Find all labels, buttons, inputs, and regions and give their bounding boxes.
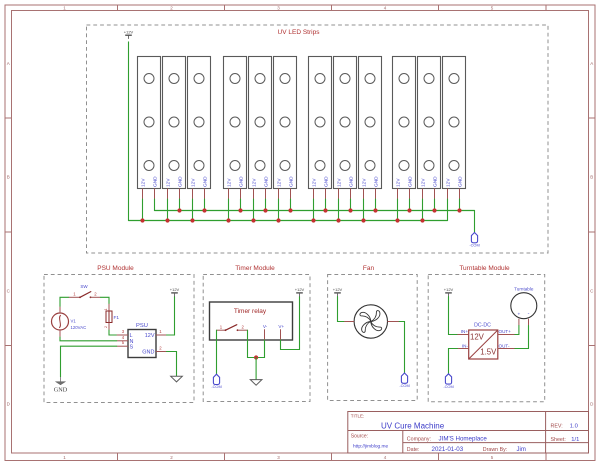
svg-text:120VAC: 120VAC bbox=[71, 325, 87, 330]
svg-text:Timer Module: Timer Module bbox=[235, 265, 275, 272]
fuse F1 bbox=[104, 304, 119, 330]
svg-text:2: 2 bbox=[104, 326, 108, 328]
LED strip module 10 (pins 12V, GND) bbox=[393, 57, 416, 200]
junction 12V bus / strip 2 bbox=[165, 218, 169, 222]
timer relay module K1 bbox=[210, 302, 293, 340]
wire V1 top to switch SW pin 1 bbox=[60, 297, 69, 306]
svg-text:12V: 12V bbox=[362, 178, 368, 187]
power symbol +12V (LED supply) bbox=[124, 29, 134, 39]
svg-text:1/1: 1/1 bbox=[571, 437, 579, 443]
power symbol -COM (timer) bbox=[211, 374, 221, 389]
wire GND bus drop to -COM bbox=[474, 211, 476, 233]
wire strip 6 GND pin to GND bus bbox=[290, 199, 292, 211]
svg-text:+: + bbox=[517, 312, 520, 317]
svg-text:1.5V: 1.5V bbox=[480, 347, 497, 356]
junction 12V bus / strip 10 bbox=[395, 218, 399, 222]
wire strip 11 12V pin to 12V bus bbox=[422, 199, 424, 221]
junction 12V bus / strip 8 bbox=[336, 218, 340, 222]
svg-text:12V: 12V bbox=[421, 178, 427, 187]
svg-text:12V: 12V bbox=[252, 178, 258, 187]
svg-text:12V: 12V bbox=[166, 178, 172, 187]
svg-text:REV:: REV: bbox=[551, 423, 563, 429]
svg-text:Turntable Module: Turntable Module bbox=[459, 265, 510, 272]
wire strip 11 GND pin to GND bus bbox=[434, 199, 436, 211]
module box: PSU Module bbox=[44, 275, 194, 403]
svg-text:12V: 12V bbox=[277, 178, 283, 187]
sheet title: UV LED Strips bbox=[278, 29, 321, 36]
svg-text:SW: SW bbox=[80, 284, 88, 289]
svg-text:12V: 12V bbox=[145, 333, 155, 339]
svg-text:+12V: +12V bbox=[295, 287, 305, 292]
LED strip module 1 (pins 12V, GND) bbox=[138, 57, 161, 200]
fan M1 bbox=[344, 305, 399, 338]
wire strip 10 GND pin to GND bus bbox=[409, 199, 411, 211]
junction relay pin2 / V- / ground bbox=[254, 355, 258, 359]
svg-text:Drawn By:: Drawn By: bbox=[483, 447, 507, 453]
junction 12V bus / strip 9 bbox=[361, 218, 365, 222]
svg-text:Sheet:: Sheet: bbox=[551, 437, 566, 443]
svg-text:Fan: Fan bbox=[363, 265, 375, 272]
PSU converter module U1 bbox=[117, 323, 167, 358]
wire strip 3 GND pin to GND bus bbox=[204, 199, 206, 211]
module box: Timer Module bbox=[203, 275, 310, 402]
svg-text:GND: GND bbox=[142, 350, 154, 356]
wire PSU GND to ground bbox=[167, 352, 177, 377]
wire 12V bus (horizontal) bbox=[129, 220, 448, 222]
wire strip 9 GND pin to GND bus bbox=[375, 199, 377, 211]
module box: Turntable Module bbox=[428, 275, 545, 402]
LED strip module 12 (pins 12V, GND) bbox=[443, 57, 466, 200]
junction GND bus / strip 10 bbox=[407, 208, 411, 212]
wire strip 7 GND pin to GND bus bbox=[325, 199, 327, 211]
turntable motor M2 bbox=[511, 287, 537, 326]
power symbol -COM (LED return) bbox=[469, 233, 479, 248]
wire +12V to DC-DC IN+ bbox=[449, 297, 458, 335]
wire strip 12 12V pin to 12V bus bbox=[447, 199, 449, 221]
svg-text:Company:: Company: bbox=[407, 436, 431, 442]
LED strip module 4 (pins 12V, GND) bbox=[224, 57, 247, 200]
junction GND bus / strip 4 bbox=[238, 208, 242, 212]
svg-text:-COM: -COM bbox=[443, 384, 453, 389]
svg-text:12V: 12V bbox=[337, 178, 343, 187]
svg-text:Turntable: Turntable bbox=[514, 287, 534, 292]
svg-text:GND: GND bbox=[374, 176, 380, 187]
svg-text:GND: GND bbox=[178, 176, 184, 187]
wire relay pin 1 to -COM bbox=[216, 330, 218, 374]
svg-text:V-: V- bbox=[263, 324, 268, 329]
svg-text:Jim: Jim bbox=[517, 447, 526, 453]
svg-text:http://jimblog.me: http://jimblog.me bbox=[353, 444, 389, 450]
wire strip 10 12V pin to 12V bus bbox=[397, 199, 399, 221]
junction GND bus / strip 3 bbox=[202, 208, 206, 212]
wire strip 4 12V pin to 12V bus bbox=[228, 199, 230, 221]
wire strip 5 12V pin to 12V bus bbox=[253, 199, 255, 221]
junction GND bus / strip 5 bbox=[263, 208, 267, 212]
LED strip module 7 (pins 12V, GND) bbox=[309, 57, 332, 200]
junction 12V bus / strip 3 bbox=[190, 218, 194, 222]
wire relay V+ to +12V bbox=[281, 297, 300, 350]
LED strip module 2 (pins 12V, GND) bbox=[163, 57, 186, 200]
module box: Fan bbox=[328, 275, 418, 401]
junction GND bus / strip 6 bbox=[288, 208, 292, 212]
ground symbol (PSU output return) bbox=[171, 376, 183, 382]
wire strip 6 12V pin to 12V bus bbox=[278, 199, 280, 221]
junction GND bus / strip 2 bbox=[177, 208, 181, 212]
svg-text:JIM'S Homeplace: JIM'S Homeplace bbox=[439, 435, 488, 442]
svg-text:GND: GND bbox=[153, 176, 159, 187]
svg-text:1.0: 1.0 bbox=[570, 423, 578, 429]
svg-text:GND: GND bbox=[349, 176, 355, 187]
wire strip 1 GND pin to GND bus bbox=[154, 199, 156, 211]
junction 12V bus / strip 11 bbox=[420, 218, 424, 222]
sheet box: UV LED Strips bbox=[87, 25, 549, 253]
svg-text:GND: GND bbox=[289, 176, 295, 187]
module title: Turntable Module bbox=[459, 265, 510, 272]
svg-text:F1: F1 bbox=[114, 315, 120, 321]
svg-text:2021-01-03: 2021-01-03 bbox=[432, 446, 464, 453]
svg-text:GND: GND bbox=[203, 176, 209, 187]
wire DC-DC IN- to -COM bbox=[449, 349, 458, 374]
svg-text:A: A bbox=[7, 61, 10, 66]
svg-text:-COM: -COM bbox=[469, 243, 479, 248]
svg-text:UV Cure Machine: UV Cure Machine bbox=[381, 421, 445, 430]
svg-text:12V: 12V bbox=[396, 178, 402, 187]
svg-text:12V: 12V bbox=[446, 178, 452, 187]
svg-text:-COM: -COM bbox=[399, 383, 409, 388]
wire DC-DC OUT- to turntable - bbox=[515, 326, 529, 349]
power symbol +12V (fan) bbox=[333, 287, 343, 297]
svg-text:+12V: +12V bbox=[333, 287, 343, 292]
svg-text:12V: 12V bbox=[191, 178, 197, 187]
DC-DC converter U2 (12V to 1.5V) bbox=[457, 323, 515, 359]
switch SW bbox=[69, 284, 101, 298]
svg-text:GND: GND bbox=[433, 176, 439, 187]
module title: Fan bbox=[363, 265, 375, 272]
svg-text:DC-DC: DC-DC bbox=[474, 323, 491, 329]
wire fuse F1 to PSU pin 3 (L) bbox=[109, 330, 117, 335]
ground symbol (timer) bbox=[250, 380, 262, 386]
LED strip module 11 (pins 12V, GND) bbox=[418, 57, 441, 200]
svg-text:GND: GND bbox=[458, 176, 464, 187]
junction GND bus / strip 9 bbox=[373, 208, 377, 212]
svg-text:IN+: IN+ bbox=[461, 329, 469, 334]
svg-text:A: A bbox=[590, 61, 593, 66]
power symbol +12V (timer) bbox=[295, 287, 305, 297]
junction 12V bus / strip 1 bbox=[140, 218, 144, 222]
svg-text:GND: GND bbox=[264, 176, 270, 187]
wire V1 bottom to PSU pin 4 (N) bbox=[60, 337, 117, 341]
junction GND bus / strip 8 bbox=[348, 208, 352, 212]
module title: PSU Module bbox=[97, 265, 134, 272]
svg-text:-: - bbox=[528, 311, 530, 317]
svg-text:Date:: Date: bbox=[407, 447, 420, 453]
svg-text:B: B bbox=[7, 174, 10, 179]
svg-text:12V: 12V bbox=[312, 178, 318, 187]
svg-text:+12V: +12V bbox=[170, 287, 180, 292]
wire strip 8 GND pin to GND bus bbox=[350, 199, 352, 211]
wire strip 9 12V pin to 12V bus bbox=[363, 199, 365, 221]
svg-text:V1: V1 bbox=[71, 319, 77, 324]
svg-text:-COM: -COM bbox=[211, 384, 221, 389]
junction 12V bus / strip 6 bbox=[276, 218, 280, 222]
wire strip 2 GND pin to GND bus bbox=[179, 199, 181, 211]
title block bbox=[348, 412, 589, 454]
svg-text:Source:: Source: bbox=[351, 434, 368, 440]
wire junction to ground (timer) bbox=[255, 358, 257, 380]
svg-text:OUT+: OUT+ bbox=[499, 329, 512, 334]
LED strip module 3 (pins 12V, GND) bbox=[188, 57, 211, 200]
AC source V1 120VAC bbox=[52, 306, 87, 337]
wire strip 8 12V pin to 12V bus bbox=[338, 199, 340, 221]
ground symbol GND (PSU input) bbox=[54, 377, 68, 393]
svg-text:12V: 12V bbox=[470, 333, 485, 342]
junction 12V bus / strip 5 bbox=[251, 218, 255, 222]
svg-text:S: S bbox=[130, 344, 134, 350]
wire strip 12 GND pin to GND bus bbox=[459, 199, 461, 211]
svg-text:B: B bbox=[590, 174, 593, 179]
junction GND bus / strip 12 bbox=[457, 208, 461, 212]
LED strip module 5 (pins 12V, GND) bbox=[249, 57, 272, 200]
wire relay pin 2 / V- loop bbox=[248, 330, 265, 357]
svg-text:OUT-: OUT- bbox=[499, 343, 510, 348]
junction GND bus / strip 11 bbox=[432, 208, 436, 212]
svg-text:Timer relay: Timer relay bbox=[234, 308, 267, 315]
wire DC-DC OUT+ to turntable + bbox=[515, 326, 519, 335]
LED strip module 9 (pins 12V, GND) bbox=[359, 57, 382, 200]
wire switch SW pin 2 to fuse F1 bbox=[101, 297, 110, 304]
wire strip 2 12V pin to 12V bus bbox=[167, 199, 169, 221]
svg-text:GND: GND bbox=[54, 386, 68, 393]
junction GND bus / strip 7 bbox=[323, 208, 327, 212]
svg-text:1: 1 bbox=[104, 309, 108, 311]
wire strip 5 GND pin to GND bus bbox=[265, 199, 267, 211]
power symbol +12V (PSU output) bbox=[170, 287, 180, 297]
svg-text:GND: GND bbox=[324, 176, 330, 187]
wire PSU pin 5 (S) to GND bbox=[61, 346, 117, 377]
LED strip module 8 (pins 12V, GND) bbox=[334, 57, 357, 200]
wire strip 4 GND pin to GND bus bbox=[240, 199, 242, 211]
wire +12V to fan + terminal bbox=[338, 297, 345, 322]
svg-text:12V: 12V bbox=[141, 178, 147, 187]
svg-text:GND: GND bbox=[408, 176, 414, 187]
power symbol -COM (fan) bbox=[399, 373, 409, 388]
wire PSU 12V output to +12V bbox=[167, 297, 175, 335]
svg-text:GND: GND bbox=[239, 176, 245, 187]
svg-text:IN-: IN- bbox=[462, 343, 469, 348]
svg-text:PSU: PSU bbox=[136, 323, 148, 329]
svg-text:TITLE:: TITLE: bbox=[351, 413, 365, 418]
svg-text:PSU Module: PSU Module bbox=[97, 265, 134, 272]
svg-text:+12V: +12V bbox=[124, 29, 134, 34]
wire strip 1 12V pin to 12V bus bbox=[142, 199, 144, 221]
power symbol +12V (turntable) bbox=[444, 287, 454, 297]
wire GND bus (horizontal) bbox=[155, 210, 475, 212]
wire fan - terminal to -COM bbox=[399, 322, 404, 374]
wire strip 7 12V pin to 12V bus bbox=[313, 199, 315, 221]
svg-text:V+: V+ bbox=[278, 324, 284, 329]
wire strip 3 12V pin to 12V bus bbox=[192, 199, 194, 221]
LED strip module 6 (pins 12V, GND) bbox=[274, 57, 297, 200]
wire +12V feed down left side bbox=[128, 42, 130, 221]
module title: Timer Module bbox=[235, 265, 275, 272]
svg-text:UV LED Strips: UV LED Strips bbox=[278, 29, 321, 36]
junction 12V bus / strip 4 bbox=[226, 218, 230, 222]
power symbol -COM (turntable) bbox=[443, 374, 453, 389]
svg-text:+12V: +12V bbox=[444, 287, 454, 292]
junction 12V bus / strip 7 bbox=[311, 218, 315, 222]
svg-text:12V: 12V bbox=[227, 178, 233, 187]
